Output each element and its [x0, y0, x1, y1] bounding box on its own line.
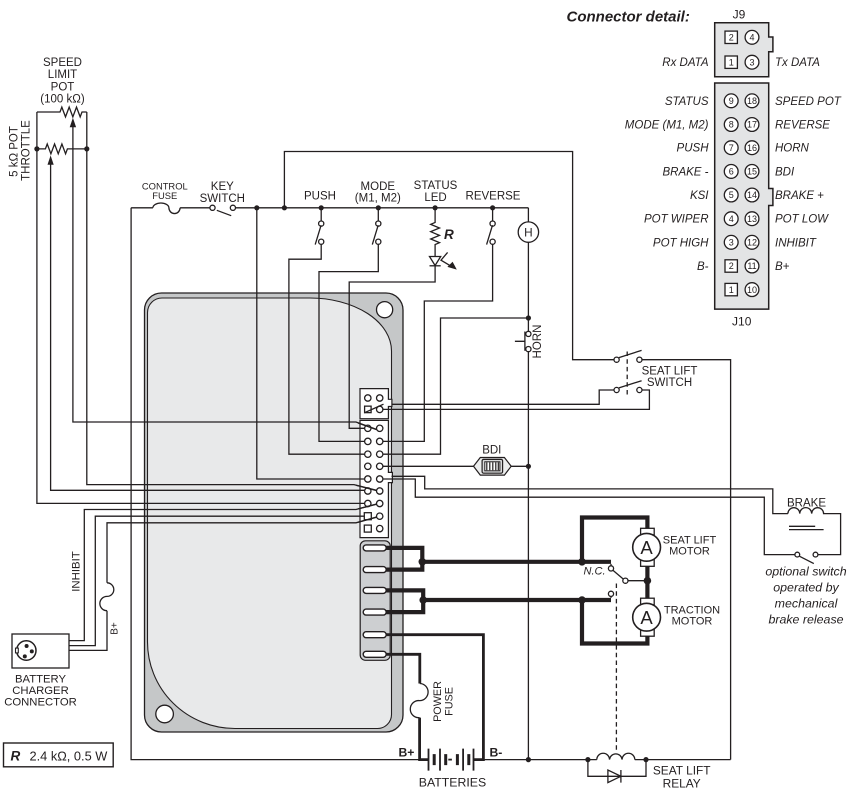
svg-text:Rx DATA: Rx DATA	[662, 57, 709, 69]
svg-text:R: R	[444, 227, 454, 242]
svg-text:(100 kΩ): (100 kΩ)	[40, 94, 85, 106]
wire: top link over to seat lift switch	[284, 152, 614, 360]
wire diagonal charger B+ to pin 11	[358, 517, 377, 522]
mounting hole bottom-left	[156, 705, 174, 723]
svg-text:B-: B-	[490, 746, 503, 760]
svg-text:FUSE: FUSE	[443, 687, 455, 716]
connector J10 pins 8,17	[365, 438, 371, 444]
svg-text:1: 1	[729, 285, 734, 295]
svg-text:J10: J10	[732, 315, 752, 329]
svg-text:B+: B+	[775, 261, 790, 273]
mounting hole top-right	[377, 302, 393, 318]
switch SEAT LIFT SWITCH bottom pole	[614, 387, 619, 392]
svg-text:POT LOW: POT LOW	[775, 214, 829, 226]
svg-text:RELAY: RELAY	[663, 776, 701, 790]
wire: pot low to J10 pin 13	[87, 112, 377, 490]
svg-text:MOTOR: MOTOR	[669, 545, 710, 557]
connector J10 pins 4,13	[365, 488, 371, 494]
lug B-	[363, 632, 386, 638]
wire diagonal speed pot to pin 18	[358, 423, 377, 430]
battery BT1	[429, 749, 474, 771]
svg-text:10: 10	[747, 285, 757, 295]
motor M1 SEAT LIFT MOTOR	[641, 528, 655, 535]
svg-text:LED: LED	[424, 192, 446, 204]
wire: charger B+ with breaker bump to J10 pin 11	[69, 611, 107, 651]
switch N.C.	[610, 564, 612, 566]
svg-text:PUSH: PUSH	[677, 143, 710, 155]
svg-text:SPEED: SPEED	[43, 57, 82, 69]
wire: BRAKE switch line B	[383, 479, 795, 555]
dashed link N.C. to seat lift relay	[615, 584, 617, 753]
svg-text:REVERSE: REVERSE	[775, 120, 830, 132]
potentiometer SPEED LIMIT POT 100k	[37, 107, 87, 117]
resistor R (status LED series)	[431, 208, 440, 257]
svg-text:2.4 kΩ, 0.5 W: 2.4 kΩ, 0.5 W	[30, 748, 109, 763]
svg-text:POWER: POWER	[432, 681, 444, 722]
relay K1 SEAT LIFT RELAY coil	[597, 753, 635, 759]
svg-text:A: A	[640, 607, 653, 628]
svg-text:1: 1	[729, 57, 734, 67]
wire: BDI line from J10 pin 15	[383, 465, 529, 467]
BDI symbol	[474, 458, 512, 476]
svg-text:N.C.: N.C.	[584, 566, 606, 578]
node traction loop junction	[578, 596, 586, 604]
node lug A1/A2 tee	[419, 596, 427, 604]
wire: lug B- to battery	[386, 635, 483, 760]
horn H1	[527, 208, 529, 222]
lug A1	[363, 587, 386, 593]
wire: lug B+ to power fuse	[386, 654, 420, 683]
svg-text:17: 17	[747, 120, 757, 130]
wire: horn tee to J10 pin 16	[383, 318, 528, 454]
svg-text:optional switch: optional switch	[765, 565, 846, 579]
switch SEAT LIFT SWITCH top pole	[614, 357, 619, 362]
controller U1 body	[145, 293, 404, 732]
svg-text:B-: B-	[697, 261, 709, 273]
connector J10 detail	[715, 83, 773, 309]
node horn tee junction	[526, 315, 531, 320]
svg-text:POT: POT	[51, 81, 75, 93]
svg-text:Connector detail:: Connector detail:	[567, 9, 690, 26]
svg-text:PUSH: PUSH	[304, 191, 336, 203]
svg-text:brake release: brake release	[768, 613, 843, 627]
node lug M1/M2 tee	[419, 558, 427, 566]
svg-text:Tx DATA: Tx DATA	[775, 57, 820, 69]
lug A2	[363, 609, 386, 615]
svg-text:BDI: BDI	[482, 444, 501, 456]
svg-text:HORN: HORN	[775, 143, 810, 155]
thick wire: lug M1/M2 to seat lift loop	[386, 546, 611, 572]
svg-text:SWITCH: SWITCH	[200, 193, 245, 205]
wire: power fuse to battery B+	[420, 718, 429, 760]
svg-text:15: 15	[747, 167, 757, 177]
node seat lift loop junction	[578, 558, 586, 566]
svg-text:BATTERIES: BATTERIES	[419, 776, 486, 790]
svg-text:INHIBIT: INHIBIT	[71, 551, 83, 592]
wire: PUSH to J10 pin 7	[289, 244, 364, 454]
svg-text:BRAKE: BRAKE	[787, 498, 826, 510]
connector J9 housing on controller	[360, 389, 392, 419]
wire: speed pot wiper to J10 pin 18	[73, 126, 377, 429]
svg-text:MODE: MODE	[361, 181, 396, 193]
wire: seat lift switch to right rail	[642, 360, 731, 760]
svg-text:FUSE: FUSE	[152, 190, 177, 201]
node bus-REVERSE junction	[490, 205, 495, 210]
svg-text:B+: B+	[110, 622, 121, 635]
svg-text:BATTERY: BATTERY	[15, 673, 67, 685]
svg-text:HORN: HORN	[532, 325, 544, 359]
svg-text:BRAKE +: BRAKE +	[775, 190, 824, 202]
lug M2	[363, 567, 386, 573]
power terminal strip	[360, 541, 390, 661]
wire: bus relay to right rail	[635, 759, 731, 761]
svg-text:8: 8	[729, 120, 734, 130]
wire: H to horn button	[527, 242, 529, 331]
node horn-B- bus junction	[526, 757, 531, 762]
svg-text:A: A	[640, 537, 653, 558]
svg-text:operated by: operated by	[773, 581, 839, 595]
svg-text:2: 2	[729, 261, 734, 271]
node bus-KSI junction	[254, 205, 259, 210]
node bus-toplink junction	[282, 205, 287, 210]
wire: REVERSE to J10 pin 17	[383, 244, 493, 441]
connector J10 pins 3,12	[365, 500, 371, 506]
fuse F2 POWER FUSE	[410, 684, 428, 718]
wire: MODE to J10 pin 8	[319, 244, 378, 441]
svg-text:INHIBIT: INHIBIT	[775, 237, 817, 249]
node BDI line junction	[526, 464, 531, 469]
svg-text:STATUS: STATUS	[414, 180, 458, 192]
pushbutton HORN	[526, 331, 531, 336]
node bus-STATUS junction	[433, 205, 438, 210]
svg-text:11: 11	[747, 261, 756, 271]
svg-text:MODE (M1, M2): MODE (M1, M2)	[625, 120, 709, 132]
svg-text:13: 13	[747, 214, 757, 224]
switch brake release	[795, 552, 800, 557]
connector J9 pins 2,4	[365, 395, 371, 401]
wire diagonal pot low to pin 13	[356, 485, 377, 490]
wire: bus from key switch to H	[236, 207, 529, 209]
brake BR1 coil	[788, 508, 841, 555]
svg-text:B+: B+	[399, 746, 415, 760]
svg-text:6: 6	[729, 167, 734, 177]
connector J10 pins 1,10	[364, 525, 371, 532]
svg-text:KSI: KSI	[690, 190, 709, 202]
wire: fuse to key switch	[180, 207, 210, 209]
wire diagonal inhibit to pin 12	[358, 504, 377, 509]
motor M2 TRACTION MOTOR	[641, 598, 655, 605]
svg-text:LIMIT: LIMIT	[48, 69, 77, 81]
svg-text:H: H	[524, 225, 533, 239]
fuse F1 CONTROL FUSE	[153, 203, 180, 214]
svg-text:mechanical: mechanical	[775, 597, 839, 611]
switch PUSH	[320, 208, 322, 221]
wire: STATUS LED to J10 pin 9	[349, 266, 435, 429]
LED D1 STATUS	[430, 257, 441, 266]
wire: main key-switch bus	[131, 207, 153, 209]
key switch S1	[210, 205, 215, 210]
node bus-PUSH junction	[319, 205, 324, 210]
switch REVERSE	[492, 208, 494, 221]
svg-text:SEAT LIFT: SEAT LIFT	[653, 763, 711, 777]
svg-text:CONNECTOR: CONNECTOR	[4, 697, 77, 709]
thick wire: motor link vertical	[645, 566, 649, 598]
wire: pot high to J10 pin 3	[37, 112, 364, 503]
node bus-MODE junction	[376, 205, 381, 210]
wire: J9 pin3 line to seat lift switch right contact	[383, 390, 650, 409]
wire: KSI wire to J10 pin 5	[257, 208, 364, 479]
svg-text:CHARGER: CHARGER	[12, 685, 69, 697]
svg-text:4: 4	[749, 33, 754, 43]
dashed link seat lift switch	[626, 352, 628, 398]
thick wire: seat lift motor loop	[580, 515, 648, 561]
svg-text:POT WIPER: POT WIPER	[644, 214, 709, 226]
svg-text:2: 2	[729, 33, 734, 43]
lug M1	[363, 545, 386, 551]
wire: J9 line to seat lift switch left contact	[392, 390, 615, 404]
svg-text:BRAKE -: BRAKE -	[662, 166, 708, 178]
svg-text:12: 12	[747, 238, 757, 248]
battery charger connector P1	[12, 634, 69, 668]
wire: throttle wiper to J10 pin 4	[51, 164, 364, 490]
connector J10 pins 9,18	[365, 425, 371, 431]
connector J10 pins 2,11	[364, 513, 371, 520]
wire: left loop vertical down to battery bus	[131, 208, 419, 760]
connector J9 pins 1,3	[365, 406, 372, 413]
svg-text:4: 4	[729, 214, 734, 224]
svg-text:3: 3	[729, 238, 734, 248]
svg-text:SEAT LIFT: SEAT LIFT	[642, 365, 698, 377]
svg-text:SWITCH: SWITCH	[647, 377, 692, 389]
svg-text:KEY: KEY	[211, 181, 234, 193]
thick wire: lug A1/A2 to traction loop	[386, 588, 611, 614]
svg-text:J9: J9	[733, 7, 746, 21]
svg-text:STATUS: STATUS	[665, 96, 709, 108]
legend box R value	[4, 743, 114, 767]
svg-text:14: 14	[747, 190, 757, 200]
diode D2 relay bypass	[588, 760, 646, 777]
node throttle left	[34, 146, 39, 151]
wire: charger mid to J10 pin 2	[69, 516, 364, 645]
wire: BRAKE coil line A	[392, 476, 788, 513]
node relay left junction	[585, 757, 590, 762]
wire: B- bottom bus	[483, 759, 596, 761]
thick wire: traction motor loop	[582, 600, 650, 646]
svg-text:7: 7	[729, 143, 734, 153]
svg-text:18: 18	[747, 96, 757, 106]
node throttle right	[84, 146, 89, 151]
switch MODE (M1, M2)	[377, 208, 379, 221]
svg-text:REVERSE: REVERSE	[466, 191, 521, 203]
connector J10 pins 5,14	[365, 476, 371, 482]
connector J10 pins 6,15	[365, 463, 371, 469]
wire: INHIBIT to J10 pin 12	[69, 504, 377, 640]
svg-text:R: R	[11, 749, 21, 764]
potentiometer 5k THROTTLE	[37, 144, 87, 154]
svg-text:BDI: BDI	[775, 166, 795, 178]
node relay right junction	[643, 757, 648, 762]
svg-text:POT HIGH: POT HIGH	[653, 237, 709, 249]
svg-text:THROTTLE: THROTTLE	[20, 120, 32, 181]
connector J10 pins 7,16	[365, 451, 371, 457]
wire diagonal J9 pin1 to notch	[364, 404, 383, 413]
svg-text:MOTOR: MOTOR	[672, 615, 713, 627]
node motor link junction	[644, 577, 652, 585]
svg-text:16: 16	[747, 143, 757, 153]
wire: horn button down to B- bus	[527, 352, 529, 760]
svg-text:5: 5	[729, 190, 734, 200]
svg-text:SPEED POT: SPEED POT	[775, 96, 842, 108]
svg-text:5 kΩ POT: 5 kΩ POT	[8, 126, 20, 177]
svg-text:(M1, M2): (M1, M2)	[355, 193, 401, 205]
svg-text:3: 3	[749, 57, 754, 67]
lug B+	[363, 651, 386, 657]
connector J10 housing on controller	[360, 420, 392, 537]
svg-text:9: 9	[729, 96, 734, 106]
